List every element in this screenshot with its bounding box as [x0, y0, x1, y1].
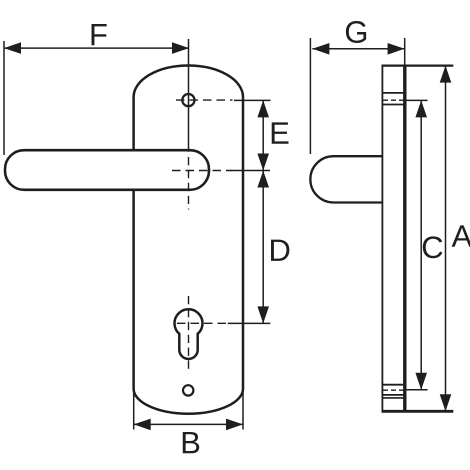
dimension D top arrowhead [257, 171, 269, 188]
dimension D bottom arrowhead [257, 306, 269, 323]
dimension F extension line (left, at handle tip) [3, 41, 5, 155]
dimension B left arrowhead [134, 419, 151, 431]
dimension F line [4, 47, 189, 49]
label C [423, 236, 443, 258]
dimension A bottom arrowhead [440, 394, 452, 411]
dimension F left arrowhead [4, 42, 21, 54]
dimension E bottom arrowhead [257, 154, 269, 171]
bottom screw band second lower line [382, 397, 404, 399]
side plate left edge [381, 66, 383, 412]
dimension C bottom arrowhead [415, 373, 427, 390]
top screw hole [182, 94, 194, 106]
dashed hole axis line (top hole) [176, 99, 233, 101]
label A [452, 225, 470, 246]
dimension B left extension line [133, 390, 135, 430]
dimension E/D shared line [262, 100, 264, 323]
front plate outline [134, 66, 243, 414]
dimension B right arrowhead [226, 419, 243, 431]
dimension G left extension line [309, 38, 311, 154]
extension tick at top hole level [234, 99, 271, 101]
label G [346, 21, 366, 43]
plate centerline dashed segment at handle [188, 157, 190, 210]
plate centerline dashed segment at keyhole [188, 296, 190, 374]
label D [271, 240, 289, 261]
dimension G right extension line [404, 38, 406, 65]
euro cylinder keyhole [175, 309, 203, 359]
dimension C top arrowhead [415, 100, 427, 117]
dimension C line [420, 100, 422, 389]
label E [272, 122, 289, 143]
plate centerline vertical solid part [188, 39, 190, 152]
top screw band dashed axis [383, 99, 404, 101]
bottom screw hole [183, 385, 193, 395]
bottom screw band dashed axis [383, 389, 404, 391]
dimension C top extension tick [405, 99, 428, 101]
bottom screw band upper line [382, 384, 404, 386]
top screw band lower line [382, 104, 404, 106]
dimension A line [445, 66, 447, 412]
bottom screw band lower line [382, 394, 404, 396]
dimension G line [312, 48, 404, 50]
dashed handle axis line [172, 170, 231, 172]
extension tick at keyhole level [228, 322, 271, 324]
dimension E top arrowhead [257, 100, 269, 117]
dashed keyhole axis line [177, 322, 229, 324]
label B [183, 432, 199, 453]
side view plate body [382, 66, 404, 412]
dimension G right arrowhead [388, 43, 405, 55]
dimension G left arrowhead [312, 43, 329, 55]
dimension C bottom extension tick [405, 389, 428, 391]
side plate bottom edge with A extension [382, 410, 454, 413]
side plate right edge [403, 66, 406, 412]
dimension A top arrowhead [440, 66, 452, 83]
dimension B right extension line [242, 390, 244, 430]
dimension B line [134, 423, 243, 425]
side view handle [310, 156, 382, 202]
lever handle front view [5, 150, 209, 190]
top screw band upper line [382, 92, 404, 94]
side plate top edge with A extension [382, 64, 454, 66]
extension tick at handle level [230, 170, 270, 172]
label F [92, 24, 107, 45]
dimension F right arrowhead [172, 42, 189, 54]
